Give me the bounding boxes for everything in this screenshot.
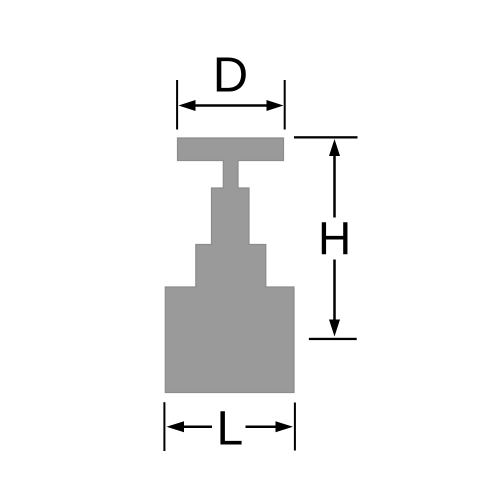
svg-text:D: D: [213, 48, 248, 102]
svg-text:L: L: [216, 402, 243, 455]
svg-text:H: H: [318, 213, 351, 265]
